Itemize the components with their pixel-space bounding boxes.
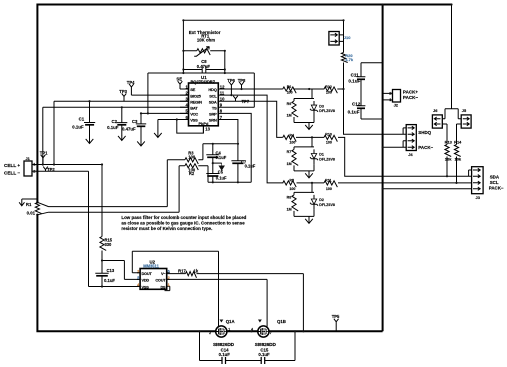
resistor R1 0.01 sense (on left border) [35,203,41,214]
transistor Q1A Si8826DD [216,326,227,337]
svg-text:12: 12 [220,84,225,89]
svg-text:C5: C5 [218,169,224,174]
svg-text:REGIN: REGIN [190,99,202,104]
resistor left 100 of block [283,181,296,187]
resistor left 100 of block [283,87,296,93]
wire top CELL+ wire [183,19,343,21]
capacitor C2 0.1uF [116,107,127,135]
svg-text:D1: D1 [319,153,324,157]
zener diode D1 DFLZ6V8 [313,149,315,164]
svg-text:C2: C2 [111,119,117,124]
wire R7/D1 branch [294,137,314,171]
wire CELL- column to VSS [89,171,141,286]
svg-text:PACK+: PACK+ [403,90,419,95]
wire V- net with R17 [167,274,304,332]
svg-text:TP7: TP7 [242,99,250,104]
wire nest mid junction [213,162,222,164]
svg-text:10K ohm: 10K ohm [197,38,215,43]
ground at nest (filled) [219,163,224,170]
transistor Q1B Si8826DD [258,326,269,337]
IC U1 BQ27542DRZ body [189,83,219,126]
IC U2 MM3511 body [140,269,167,290]
wire SDA net [228,101,472,176]
resistor R7 1M [292,149,298,165]
svg-text:6: 6 [168,269,170,273]
svg-text:BIO25: BIO25 [190,93,201,98]
resistor R20 4.7k [341,53,347,63]
svg-text:SE: SE [176,76,182,81]
svg-text:PACK−: PACK− [489,186,504,191]
svg-text:Q1A: Q1A [226,319,236,324]
svg-text:100: 100 [289,141,295,145]
svg-text:HDQ: HDQ [208,87,216,92]
svg-text:SRP: SRP [209,112,217,117]
svg-text:TP4: TP4 [127,80,135,85]
wire TOUT row pin2 [131,94,188,96]
resistor right 100 of block [324,181,337,187]
test point TP6 [229,82,234,95]
wire DOUT net [132,251,218,326]
capacitor C7 0.1uF [231,144,244,183]
capacitor C13 0.1uF [95,261,108,287]
svg-text:PACK−: PACK− [418,145,433,150]
wire CELL+ row from J1 [37,165,102,172]
test point SE [178,81,183,89]
junction dots [182,19,184,21]
svg-text:1: 1 [228,327,230,331]
wire SRN net [228,120,238,144]
svg-text:Low pass filter for coulomb co: Low pass filter for coulomb counter inpu… [121,215,246,220]
svg-text:R17: R17 [178,268,186,273]
wire VSS row pin6 to ground [158,120,189,132]
svg-text:CELL −: CELL − [4,171,20,176]
wire DS hook [165,286,170,290]
svg-text:R14: R14 [454,140,462,145]
svg-text:330: 330 [105,242,113,247]
svg-text:R7: R7 [287,150,292,154]
wire TS net [228,106,254,108]
jumper J10 [329,32,339,46]
test point TP1 [41,155,46,165]
wire SCL net [228,95,472,183]
svg-text:5: 5 [137,276,139,280]
svg-text:Q1B: Q1B [277,319,286,324]
kelvin connection slants at R1 [37,202,48,215]
svg-text:100: 100 [326,141,332,145]
svg-text:0.01: 0.01 [27,210,36,215]
svg-text:0.1uF: 0.1uF [104,278,115,283]
svg-text:MM3511: MM3511 [143,264,159,269]
capacitor C15 0.1uF loop [265,331,295,360]
svg-text:BQ27542DRZ: BQ27542DRZ [191,79,216,84]
svg-text:J4: J4 [408,152,413,157]
svg-text:2: 2 [209,331,211,335]
ground at VSS [154,131,162,138]
wire pullup supply [445,5,458,119]
test point TP5 [334,319,339,332]
connector J2 [393,90,401,103]
ground at C2 [118,135,126,140]
svg-text:DFLZ6V8: DFLZ6V8 [319,109,335,113]
svg-text:SDA: SDA [490,174,500,179]
resistor R13 10k [445,145,451,157]
capacitor C4 0.1uF [206,144,219,163]
svg-text:DOUT: DOUT [142,271,153,276]
capacitor C12 0.1uF [357,106,383,119]
svg-text:100: 100 [289,187,295,191]
svg-text:R2: R2 [189,171,195,176]
capacitor C5 0.1uF [206,163,219,182]
svg-text:C1: C1 [79,117,85,122]
ground at C1 [86,138,94,143]
svg-text:D3: D3 [319,104,324,108]
wire BAT row pin4 [43,107,189,164]
svg-text:0.1uF: 0.1uF [219,352,231,357]
svg-text:10k: 10k [455,157,462,162]
svg-text:SRN: SRN [209,118,217,123]
svg-text:VSS: VSS [190,118,198,123]
svg-text:0.1uF: 0.1uF [107,125,119,130]
svg-text:DS: DS [160,284,166,289]
svg-text:SDA: SDA [209,99,217,104]
svg-text:C11: C11 [351,72,360,77]
capacitor C11 0.1uF [357,63,383,106]
resistor R3 100 [185,158,198,164]
svg-text:0.1uF: 0.1uF [216,155,227,160]
test point TP8 [239,82,244,89]
ground at C3 [137,141,145,146]
svg-text:100: 100 [326,187,332,191]
svg-text:1M: 1M [287,162,292,166]
svg-text:C3: C3 [132,119,138,124]
svg-text:J2: J2 [394,103,399,108]
svg-text:0.47uF: 0.47uF [122,127,136,132]
svg-text:0.47uF: 0.47uF [197,64,211,69]
thermistor RT1 10K [183,50,224,52]
svg-text:100: 100 [326,91,332,95]
svg-text:SHDQ: SHDQ [418,130,431,135]
svg-text:1: 1 [33,161,36,166]
svg-text:TP3: TP3 [119,89,127,94]
svg-text:PACK−: PACK− [403,95,419,100]
wire HDQ net [228,20,406,134]
svg-text:11: 11 [220,90,225,95]
svg-text:R5: R5 [289,179,294,183]
jumper J5 [461,115,471,128]
svg-text:4.7k: 4.7k [345,57,354,62]
svg-text:R11: R11 [325,179,331,183]
svg-text:R10: R10 [325,132,332,136]
svg-text:SCL: SCL [209,93,217,98]
svg-text:DFLZ6V8: DFLZ6V8 [319,203,335,207]
svg-text:0.1uF: 0.1uF [348,78,360,83]
zener diode D2 DFLZ6V8 [313,195,315,210]
jumper J6 [432,115,442,128]
svg-text:R6: R6 [287,85,292,89]
svg-text:SCL: SCL [490,180,499,185]
svg-text:13: 13 [205,127,210,132]
test point TP2 [43,167,48,172]
svg-text:BAT: BAT [190,106,198,111]
wire sense bottom line [49,166,252,212]
ground at D1 [305,171,313,178]
svg-text:as close as possible to gas ga: as close as possible to gas gauge IC. Co… [121,221,245,226]
ground left of R1 [22,198,38,200]
U1 pin stubs [180,89,228,120]
wire thermistor frame [148,20,254,113]
svg-text:0.1uF: 0.1uF [245,163,256,168]
svg-text:1: 1 [168,283,170,287]
svg-text:R8: R8 [287,196,292,200]
resistor left 100 of block [283,135,296,141]
svg-text:PbPd: PbPd [198,121,209,126]
test point TP7 [233,96,238,101]
svg-text:D2: D2 [319,198,324,202]
svg-text:R9: R9 [287,102,292,106]
capacitor C8 0.47uF [183,66,224,74]
svg-text:1M: 1M [287,207,292,211]
capacitor C1 0.1uF [84,101,95,138]
svg-text:J5: J5 [462,108,467,113]
resistor right 100 of block [324,87,337,93]
svg-text:VCC: VCC [190,112,198,117]
svg-text:R13: R13 [445,140,453,145]
svg-text:100: 100 [188,154,196,159]
svg-text:10k: 10k [445,157,452,162]
zener diode D3 DFLZ6V8 [313,101,315,116]
svg-text:1M: 1M [287,113,292,117]
wire thermal pad loop pin13 [177,120,204,134]
resistor R17 1k [186,272,197,278]
test point TP4 [129,84,134,95]
svg-text:0.1uF: 0.1uF [216,176,227,181]
wire SRP net [228,113,251,182]
U2 pin stubs [137,273,170,287]
svg-text:J3: J3 [476,195,481,200]
svg-text:100: 100 [287,91,293,95]
svg-text:TS: TS [212,106,217,111]
svg-text:7: 7 [270,331,272,335]
svg-text:0.1uF: 0.1uF [258,352,270,357]
resistor R8 1M [292,195,298,211]
resistor R2 100 [185,164,198,170]
resistor right 100 of block [324,135,337,141]
wire outer border power loop (CELL- / PACK- rail) [37,5,451,332]
resistor R14 10k [454,145,460,157]
wire VCC row pin5 [141,112,189,114]
connector J3 [472,167,484,194]
wire R8/D2 branch [294,183,314,217]
svg-text:TP8: TP8 [238,78,246,83]
svg-text:VDD: VDD [142,277,150,282]
svg-text:R1: R1 [26,202,32,207]
svg-text:0.1uF: 0.1uF [72,125,84,130]
wire REGIN row pin3 [54,101,189,164]
svg-text:J6: J6 [433,108,438,113]
wire COUT net [167,279,267,326]
wire sense top line [49,144,239,207]
test point TP3 [122,93,127,101]
svg-text:C12: C12 [352,101,361,106]
svg-text:R12: R12 [325,85,332,89]
wire R9/D3 branch [294,89,314,123]
svg-text:J10: J10 [344,35,351,40]
wire CELL+ column [102,165,140,280]
svg-text:SE: SE [190,87,195,92]
svg-text:VSS: VSS [142,284,150,289]
capacitor C14 0.1uF loop [200,331,262,360]
svg-text:10: 10 [220,97,225,102]
svg-text:CELL +: CELL + [4,163,20,168]
svg-text:TP1: TP1 [40,151,48,156]
svg-text:C13: C13 [107,268,115,273]
svg-text:resistor must be of Kelvin con: resistor must be of Kelvin connection ty… [121,226,212,231]
svg-text:1k: 1k [194,268,199,273]
U1 pad pin 13 stub [202,126,204,133]
resistor R9 1M [292,101,298,117]
resistor R15 330 [100,237,106,251]
svg-text:COUT: COUT [155,277,166,282]
svg-text:DFLZ6V8: DFLZ6V8 [319,158,335,162]
capacitor C3 0.47uF [136,113,146,141]
svg-text:0.1uF: 0.1uF [348,110,360,115]
svg-text:TP6: TP6 [227,78,235,83]
svg-text:TP5: TP5 [332,314,340,319]
connector J4 [406,125,416,151]
ground at D2 [305,216,313,223]
connector J1 [24,161,32,176]
svg-text:R4: R4 [289,133,294,137]
ground at D3 [305,123,313,130]
